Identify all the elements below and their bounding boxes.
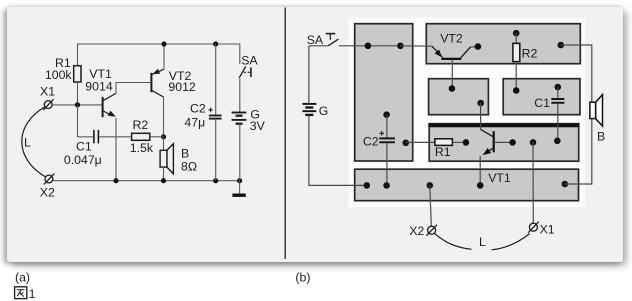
divider between (a) and (b)	[284, 8, 286, 260]
caption figure 1 (hand-drawn CJK)	[15, 287, 27, 299]
wire VT1 base to pad	[494, 141, 513, 143]
svg-text:0.047μ: 0.047μ	[64, 153, 102, 167]
terminal X2 (b)	[426, 225, 437, 236]
wire SA down to G	[308, 46, 310, 104]
polarity plus C2 (b)	[379, 131, 384, 136]
svg-text:SA: SA	[307, 33, 324, 47]
terminal X2	[44, 174, 54, 185]
node ground rail	[237, 178, 242, 183]
node emitter rail	[113, 178, 118, 183]
wire pad A3 down to C2	[386, 115, 388, 138]
wire VT1 emitter down to block F	[479, 156, 481, 185]
wire C2 pad to R1	[406, 141, 435, 143]
wire speaker to rail	[163, 167, 165, 181]
wire X1 to VT1 base	[52, 104, 102, 106]
svg-text:9014: 9014	[85, 80, 113, 94]
node pad E2	[509, 139, 516, 146]
wire SA to battery	[239, 78, 241, 112]
wire R2 to node	[150, 136, 164, 138]
wire VT2 collector to pad	[471, 46, 478, 48]
speaker B (b)	[590, 95, 603, 127]
svg-text:X1: X1	[540, 223, 555, 237]
capacitor C1 (b)	[551, 99, 564, 103]
svg-text:47μ: 47μ	[184, 116, 205, 130]
capacitor C2 (b)	[379, 138, 395, 142]
wire VT2 collector down	[163, 97, 165, 137]
wire R1 bottom to base node	[77, 82, 79, 105]
wire SA left to corner	[309, 45, 328, 47]
node pad E1	[463, 139, 470, 146]
svg-text:C1: C1	[534, 96, 550, 110]
svg-text:L: L	[24, 136, 31, 150]
svg-text:3V: 3V	[250, 119, 266, 133]
svg-text:X2: X2	[40, 185, 55, 199]
transistor VT2	[151, 69, 164, 97]
pcb board white background	[349, 18, 586, 208]
node C2 rail top	[213, 41, 218, 46]
node pad A2	[397, 43, 404, 50]
wire X2 column	[430, 185, 432, 226]
wire C2 down to block F	[386, 142, 388, 185]
node pad F5 (speaker)	[562, 181, 569, 188]
inductor L arc	[22, 107, 45, 177]
svg-text:100k: 100k	[45, 68, 73, 82]
wire VT2 base down	[451, 59, 453, 89]
resistor R2	[132, 133, 150, 140]
resistor R1	[74, 66, 81, 82]
node C2 rail	[213, 178, 218, 183]
svg-text:VT2: VT2	[440, 31, 463, 45]
svg-text:C1: C1	[76, 140, 92, 154]
svg-text:R1: R1	[435, 145, 451, 159]
wire C1 down to block E pad	[557, 103, 559, 141]
copper block F (bottom strip)	[355, 169, 579, 201]
svg-text:1.5k: 1.5k	[130, 141, 154, 155]
node pad E4	[554, 138, 561, 145]
wire C2 bottom	[215, 119, 217, 181]
svg-text:L: L	[479, 235, 486, 249]
capacitor C2	[209, 116, 222, 119]
svg-text:8Ω: 8Ω	[181, 159, 197, 173]
svg-text:X2: X2	[409, 224, 424, 238]
inductor L arc (b)	[435, 233, 530, 249]
switch SA	[239, 67, 251, 78]
terminal X1 (b)	[528, 222, 539, 233]
block E thick top bar	[428, 123, 579, 127]
switch SA (b)	[326, 34, 339, 46]
transistor VT1	[103, 93, 116, 117]
node pad D1	[513, 87, 520, 94]
node pad C2pad (block C lower)	[477, 100, 484, 107]
wire pad F5 to speaker bottom	[565, 119, 592, 184]
wire VT1 collector to VT2 base	[116, 83, 150, 94]
svg-text:C2: C2	[190, 102, 206, 116]
node pad B right	[558, 42, 565, 49]
wire SA to block A	[339, 45, 401, 47]
resistor R2 (b)	[513, 43, 520, 61]
wire VT2 emitter to rail	[163, 44, 165, 69]
copper block C (middle left)	[429, 79, 489, 115]
wire VT1 emitter down	[115, 118, 117, 181]
svg-text:(a): (a)	[15, 270, 30, 284]
svg-text:X1: X1	[40, 84, 55, 98]
wire top rail	[78, 44, 240, 66]
node speaker rail	[161, 178, 166, 183]
svg-text:G: G	[319, 104, 329, 118]
ground	[232, 181, 245, 196]
copper block D (middle right)	[503, 79, 580, 115]
resistor R1 (b)	[435, 139, 453, 146]
wire node to speaker	[163, 137, 165, 151]
node pad F4 (VT1 emitter)	[477, 182, 484, 189]
node pad D2 (C1 top)	[555, 84, 562, 91]
wire pad B to speaker top	[561, 45, 592, 102]
wire G down to block F	[309, 115, 367, 185]
wire C1 to R2	[99, 136, 131, 138]
node pad F2	[383, 182, 390, 189]
capacitor C1	[94, 130, 99, 144]
node pad F3 (X2)	[427, 182, 434, 189]
node VT2 emitter rail	[161, 41, 166, 46]
svg-text:SA: SA	[241, 54, 258, 68]
wire pad to C1	[557, 87, 559, 99]
speaker B	[160, 144, 173, 174]
wire pad down to VT1 collector	[480, 103, 482, 129]
node pad A3	[383, 111, 390, 118]
wire base node down to C1	[78, 105, 94, 137]
svg-text:1: 1	[29, 287, 36, 301]
node pad C2 junction	[403, 140, 410, 147]
node base junction	[75, 102, 80, 107]
polarity plus C2	[208, 108, 213, 113]
wire battery to rail	[239, 124, 241, 181]
wire bottom rail	[53, 180, 240, 182]
battery G (b)	[302, 104, 316, 115]
transistor VT1 (b)	[481, 129, 494, 155]
svg-text:R2: R2	[522, 46, 538, 60]
copper block E (VT1 strip)	[429, 124, 579, 162]
svg-text:VT1: VT1	[488, 171, 511, 185]
copper block A (left tall)	[355, 24, 413, 161]
node pad C1pad	[449, 85, 456, 92]
wire A2 to VT2 emitter	[400, 45, 432, 47]
wire R1 to pad	[452, 141, 466, 143]
node pad F1	[364, 182, 371, 189]
transistor VT2 (b)	[432, 46, 471, 59]
node pad above R2	[513, 30, 520, 37]
wire X1 column	[532, 142, 534, 223]
terminal X1	[43, 99, 53, 110]
svg-text:B: B	[181, 146, 189, 160]
copper block B (top wide)	[426, 24, 580, 64]
svg-text:B: B	[597, 130, 605, 144]
svg-text:C2: C2	[363, 134, 379, 148]
wire C2 top	[215, 44, 217, 115]
svg-text:(b): (b)	[295, 271, 310, 285]
battery G	[232, 113, 247, 124]
wire pad to R2	[515, 33, 517, 43]
node pad E3 (X1)	[530, 139, 537, 146]
node pad B1	[475, 43, 482, 50]
svg-text:R2: R2	[133, 118, 149, 132]
svg-text:9012: 9012	[168, 80, 196, 94]
node pad A1	[365, 43, 372, 50]
node collector / R2 / speaker	[161, 134, 166, 139]
wire R2 down to pad	[515, 62, 517, 91]
